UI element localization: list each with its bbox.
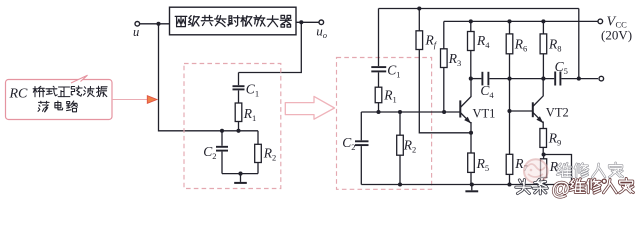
wire feedback from input down and across [159,25,259,131]
svg-text:R2: R2 [403,138,417,155]
input terminal u [135,22,140,27]
svg-text:u: u [133,25,139,39]
svg-text:R3: R3 [448,51,462,68]
node R8 bottom / VT2 collector [541,77,545,81]
resistor R9 [540,129,547,148]
watermark 头条 [516,179,548,194]
node R9 bottom [542,152,546,156]
capacitor C2 (left network) [216,131,228,174]
node Rf top [417,6,421,10]
resistor R2 (left network) [255,131,262,174]
wire feedback right drop [578,9,580,79]
resistor R1 (right network) [375,87,382,103]
watermark 维修人家 line 2 [570,179,633,194]
resistor R1 (left network) [235,103,242,122]
transistor VT2 [533,79,543,129]
node R1 bottom (right) [376,110,380,114]
output terminal (right) [599,76,604,81]
big hollow arrow [285,96,334,119]
wire C5 to output terminal [561,78,598,80]
wire Vcc rail [444,20,598,22]
svg-text:@: @ [552,179,571,200]
resistor R8 [540,21,547,78]
resistor R2 (right network) [397,112,404,185]
resistor R7 [506,111,513,185]
resistor R6 and column [506,21,513,111]
svg-text:R1: R1 [383,88,397,105]
node feedback tap [577,77,581,81]
node R1 bottom [236,129,240,133]
svg-text:uo: uo [316,24,327,41]
svg-text:R2: R2 [263,146,277,163]
node R2 top (right) [398,110,402,114]
node R4 top [469,19,473,23]
svg-text:R4: R4 [476,33,490,50]
node R10 bottom rail [542,182,546,186]
wire output drop to C1 [239,24,302,73]
svg-text:C2: C2 [342,135,355,152]
node R2 bottom rail [398,182,402,186]
svg-text:C5: C5 [555,59,568,76]
node R3 bottom [442,110,446,114]
capacitor C2 (right network) [355,112,369,185]
wire emitter tap L [544,155,572,185]
wire bottom of left network [222,173,258,175]
svg-text:R6: R6 [514,37,528,54]
callout tail [71,75,88,83]
wire top feedback rail [379,8,579,10]
wire R9 to junction [542,147,544,154]
node VT1 emitter / Rf [469,131,473,135]
label 两级共发射极放大器 [175,15,291,27]
node C2 top [220,129,224,133]
pointer line from RC box [112,99,149,101]
resistor Rf [416,9,471,133]
node VT2 base line [507,109,511,113]
svg-text:(20V): (20V) [601,28,632,43]
Vcc terminal [598,19,603,24]
wire amp box to output terminal [296,21,319,23]
capacitor C4 [482,72,488,86]
label 荡电路 [38,101,77,112]
resistor R10 [541,155,547,185]
dashed box around left RC network [184,64,281,189]
wire R1 to feedback node [238,122,240,131]
svg-text:C2: C2 [203,144,216,161]
amplifier block box [170,7,297,35]
transistor VT1 [460,79,471,133]
watermark trademark dot [602,179,606,183]
capacitor C1 (left network) [233,73,245,104]
wire base line to VT1 [361,111,459,113]
node R8 top [541,19,545,23]
capacitor C5 [555,72,560,86]
svg-text:R1: R1 [243,106,256,123]
node VT1 collector / C4 left [469,77,473,81]
node R6 top [507,19,511,23]
wire C4 to C5 [489,78,554,80]
capacitor C1 (right network) [371,9,386,88]
wire R1 to base line [378,103,380,112]
svg-text:Rf: Rf [425,33,438,50]
pointer arrowhead [147,96,157,104]
resistor R3 [441,21,448,112]
wire input to amp box [140,23,170,25]
svg-text:C4: C4 [480,83,494,100]
svg-text:C1: C1 [246,82,259,99]
svg-text:VT1: VT1 [473,107,496,121]
svg-text:R8: R8 [548,37,562,54]
node: output junction [299,20,303,24]
node R6 column / C4 right [507,77,511,81]
ground (right) [465,185,478,192]
wire base line to VT2 [510,110,533,112]
resistor R4 [468,21,475,78]
node ground junction (right) [470,182,474,186]
RC oscillator label box [6,80,113,120]
svg-text:RC: RC [9,87,29,102]
svg-text:C1: C1 [387,63,400,80]
svg-text:R5: R5 [476,156,490,173]
watermark logo [524,159,548,183]
node R7 bottom rail [507,182,511,186]
node ground junction (left) [238,172,242,176]
svg-text:VT2: VT2 [546,106,569,120]
dashed box around right RC network [337,58,432,190]
svg-text:R9: R9 [548,131,562,148]
watermark 维修人家 line 1 [557,163,623,178]
wire output line with C4/C5 [471,78,482,80]
wire bottom rail [361,184,571,186]
resistor R5 [468,133,475,185]
node: input junction [156,22,160,26]
output terminal uo [319,20,324,25]
ground (left network) [234,174,247,183]
